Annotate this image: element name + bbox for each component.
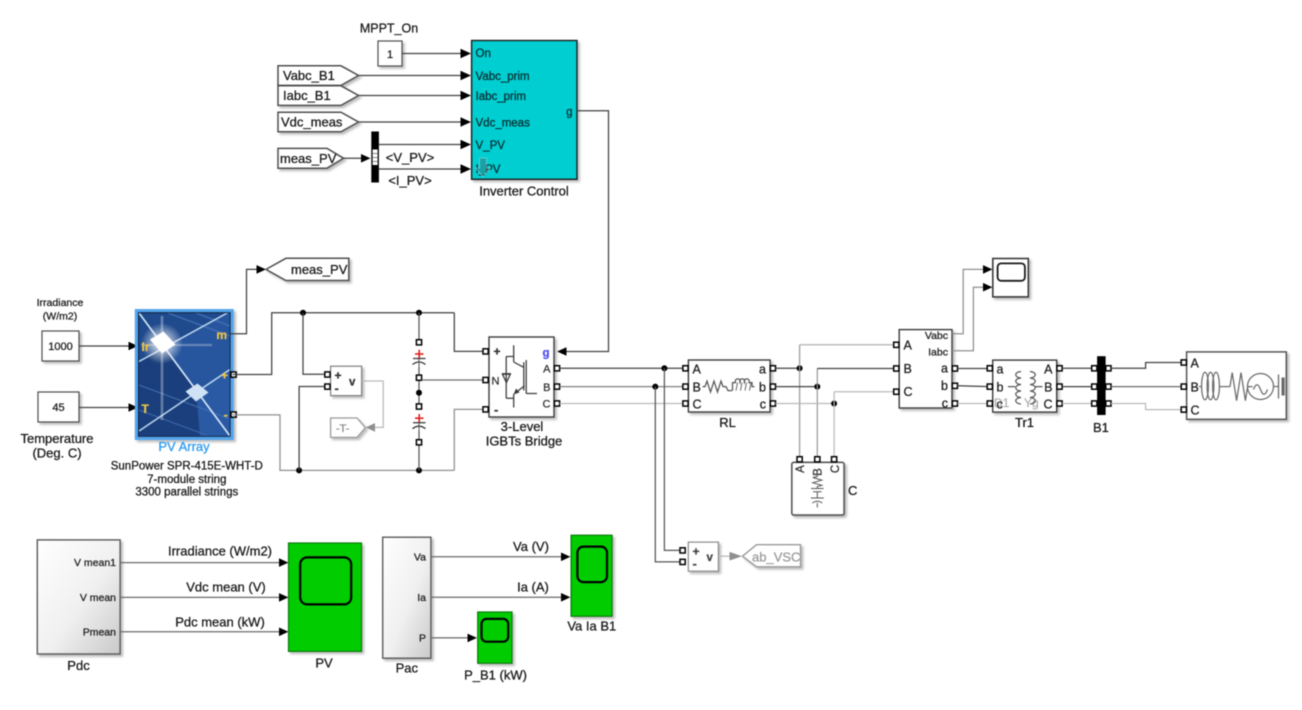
svg-text:T: T	[142, 402, 150, 416]
wire g output to bridge	[557, 111, 609, 356]
wire phase a riser	[799, 345, 801, 458]
label Inverter Control	[479, 184, 569, 199]
meter port squares	[894, 342, 958, 406]
svg-text:(Deg. C): (Deg. C)	[32, 446, 81, 461]
svg-text:P: P	[419, 633, 426, 645]
wire meas_PV to bus selector	[344, 154, 371, 163]
scope block	[993, 259, 1029, 297]
RL block	[688, 360, 770, 412]
svg-text:Vabc: Vabc	[925, 330, 948, 342]
wire m to meas_PV goto	[230, 265, 266, 334]
bridge port squares	[483, 349, 560, 412]
label RL	[719, 415, 736, 430]
svg-text:B: B	[1044, 381, 1052, 395]
transformer Tr1	[993, 360, 1057, 412]
subsystem Inverter Control	[472, 41, 577, 180]
label Va Ia B1	[567, 619, 616, 634]
label PV	[315, 656, 333, 671]
node phase a	[797, 365, 803, 371]
svg-text:a: a	[997, 363, 1004, 377]
wire 45 to T	[79, 403, 138, 412]
cursor artifact over I_PV	[476, 158, 491, 177]
svg-text:Iabc: Iabc	[928, 346, 948, 358]
svg-text:-: -	[335, 381, 339, 396]
wire Va to scope	[431, 553, 571, 562]
svg-text:A: A	[543, 364, 551, 376]
label Tr1	[1015, 415, 1034, 430]
scope P_B1	[478, 612, 512, 663]
svg-text:m: m	[216, 328, 227, 342]
svg-text:Ia: Ia	[417, 592, 426, 604]
svg-text:C: C	[1043, 398, 1052, 412]
bus bar B1	[1092, 356, 1111, 415]
svg-text:+: +	[221, 369, 228, 383]
label 3-Level IGBTs Bridge	[486, 419, 563, 449]
wire Vabc_B1 to Vabc_prim	[359, 71, 472, 81]
signal label Vdc mean (V)	[186, 580, 265, 595]
signal label Ia (A)	[517, 580, 549, 595]
svg-text:RL: RL	[719, 415, 736, 430]
wire RL c to node	[776, 403, 835, 405]
svg-text:(W/m2): (W/m2)	[43, 311, 77, 323]
svg-text:Temperature: Temperature	[21, 431, 94, 446]
wire Pmean to PV scope	[120, 628, 288, 637]
svg-text:v: v	[707, 552, 714, 564]
wire B1 to source B	[1111, 386, 1181, 388]
svg-text:A: A	[904, 338, 913, 352]
wire Iabc to scope	[952, 283, 992, 351]
goto tag -T-	[331, 418, 366, 437]
svg-text:Irradiance (W/m2): Irradiance (W/m2)	[168, 544, 272, 559]
wire 1000 to Ir	[79, 342, 138, 351]
signal label Pdc mean (kW)	[175, 615, 265, 630]
wire top bus to bridge plus	[454, 313, 483, 352]
wire bridge B to RL B	[560, 386, 683, 388]
label Irradiance (W/m2)	[37, 297, 84, 323]
svg-text:meas_PV: meas_PV	[291, 262, 348, 277]
svg-text:meas_PV: meas_PV	[280, 151, 337, 166]
goto tag ab_VSC	[743, 545, 801, 567]
3-Level IGBTs Bridge block	[489, 337, 554, 417]
label MPPT_On	[360, 22, 418, 36]
svg-text:g: g	[566, 107, 572, 119]
wire RL a to node	[776, 367, 800, 369]
capacitor C2	[413, 404, 426, 445]
node top bus right	[416, 310, 422, 316]
svg-text:Vdc_meas: Vdc_meas	[476, 118, 531, 130]
svg-text:3-Level: 3-Level	[501, 419, 544, 434]
svg-text:v: v	[349, 377, 356, 389]
svg-text:b: b	[941, 379, 948, 393]
svg-text:Va Ia B1: Va Ia B1	[567, 619, 616, 634]
svg-text:7-module string: 7-module string	[147, 474, 226, 486]
wire bridge C to RL C	[560, 403, 683, 405]
PV Array block	[135, 310, 236, 440]
wire A tap to Vab plus	[664, 368, 681, 550]
wire phase c riser	[833, 392, 835, 458]
capacitor bank C block	[792, 462, 844, 515]
subsystem Pac	[383, 537, 431, 658]
wire Iabc_B1 to Iabc_prim	[359, 91, 472, 101]
node bottom bus right	[416, 467, 422, 473]
svg-text:C: C	[693, 398, 702, 412]
wire PV plus to top bus	[233, 313, 455, 375]
svg-text:SunPower SPR-415E-WHT-D: SunPower SPR-415E-WHT-D	[111, 461, 263, 473]
svg-text:B: B	[904, 362, 912, 376]
svg-text:Vabc_prim: Vabc_prim	[476, 71, 530, 83]
wire RL b to node	[776, 386, 818, 388]
svg-text:<V_PV>: <V_PV>	[386, 150, 434, 165]
label Pac	[396, 661, 419, 676]
svg-text:A: A	[795, 465, 807, 473]
node top bus left	[300, 310, 306, 316]
svg-text:V mean1: V mean1	[74, 557, 116, 569]
wire constant to On	[402, 49, 471, 59]
wire v to ab_VSC tag	[718, 552, 742, 561]
wire phase b riser	[816, 369, 818, 459]
label B1	[1093, 420, 1109, 435]
svg-text:Pmean: Pmean	[83, 626, 116, 638]
label PV Array	[158, 439, 210, 454]
wire to meter B	[817, 368, 894, 370]
svg-text:Vdc mean (V): Vdc mean (V)	[186, 580, 265, 595]
wire Tr1 C to B1	[1062, 403, 1092, 405]
wire V mean1 to PV scope	[120, 558, 288, 567]
wire to meter C	[834, 391, 894, 393]
voltage measurement Vab_VSC	[680, 542, 718, 571]
node phase c	[831, 401, 837, 407]
svg-text:C: C	[1191, 404, 1200, 418]
svg-text:c: c	[760, 398, 766, 412]
svg-text:Vabc_B1: Vabc_B1	[283, 68, 335, 83]
wire I_PV	[379, 164, 471, 174]
constant block 1	[378, 41, 402, 66]
wire meter c to Tr1 c	[958, 403, 990, 405]
wire meter b to Tr1 b	[958, 385, 990, 388]
svg-text:Vdc_meas: Vdc_meas	[281, 115, 343, 130]
svg-text:Pdc mean (kW): Pdc mean (kW)	[175, 615, 265, 630]
svg-text:A: A	[1191, 357, 1200, 371]
svg-text:1: 1	[387, 49, 393, 61]
svg-text:a: a	[759, 363, 766, 377]
signal label Irradiance (W/m2)	[168, 544, 272, 559]
svg-text:-: -	[494, 402, 498, 417]
constant 45	[38, 392, 79, 422]
wire B tap to Vab minus	[655, 387, 681, 562]
wire B1 to source C	[1111, 404, 1181, 410]
wire cap midpoint to bridge N	[422, 379, 483, 381]
svg-text:B: B	[813, 468, 825, 476]
svg-text:B: B	[543, 382, 550, 394]
from tag Vabc_B1	[278, 66, 359, 86]
svg-text:PV: PV	[315, 656, 333, 671]
node phase b	[814, 384, 820, 390]
wire B1 to source A	[1111, 363, 1181, 369]
svg-text:Ia (A): Ia (A)	[517, 580, 549, 595]
wire bottom bus to bridge minus	[454, 409, 483, 470]
scope PV	[289, 543, 362, 651]
svg-text:c: c	[942, 397, 948, 411]
Tr1 port squares	[987, 366, 1062, 406]
svg-text:IGBTs Bridge: IGBTs Bridge	[486, 434, 563, 449]
svg-text:3300 parallel strings: 3300 parallel strings	[135, 487, 238, 499]
svg-text:Va: Va	[414, 551, 426, 563]
goto tag meas_PV	[266, 258, 349, 280]
svg-text:Iabc_B1: Iabc_B1	[283, 88, 331, 103]
svg-text:Irradiance: Irradiance	[37, 297, 84, 309]
label Temperature (Deg. C)	[21, 431, 94, 461]
signal label V_PV	[386, 150, 434, 165]
wire Tr1 A to B1	[1062, 367, 1092, 369]
wire to meter A	[800, 344, 894, 346]
from tag Iabc_B1	[278, 86, 359, 106]
voltage measurement Vdc	[325, 366, 362, 395]
wire Tr1 B to B1	[1062, 386, 1092, 388]
svg-text:Va (V): Va (V)	[513, 539, 549, 554]
label C	[848, 483, 857, 498]
svg-text:Tr1: Tr1	[1015, 415, 1034, 430]
signal label Va (V)	[513, 539, 549, 554]
svg-text:-T-: -T-	[336, 423, 350, 435]
subsystem Pdc	[37, 540, 120, 654]
svg-text:N: N	[492, 376, 500, 388]
svg-text:MPPT_On: MPPT_On	[360, 22, 418, 36]
three-phase VI measurement B1 meter	[899, 330, 952, 411]
svg-text:b: b	[759, 381, 766, 395]
svg-text:ab_VSC: ab_VSC	[752, 550, 800, 565]
wire Ia to scope	[431, 593, 571, 602]
label SunPower strings	[111, 461, 263, 499]
node bottom bus left	[296, 467, 302, 473]
svg-text:-: -	[224, 407, 228, 422]
svg-text:Ir: Ir	[142, 340, 150, 354]
svg-text:B1: B1	[1093, 420, 1109, 435]
svg-text:<I_PV>: <I_PV>	[388, 173, 431, 188]
RL port squares	[683, 366, 776, 406]
svg-text:C: C	[543, 399, 551, 411]
wire V mean to PV scope	[120, 593, 288, 602]
svg-text:c: c	[997, 398, 1003, 412]
svg-text:-: -	[693, 556, 697, 571]
wire Vabc to scope	[952, 265, 992, 334]
from tag Vdc_meas	[278, 112, 359, 132]
source port squares	[1181, 360, 1186, 412]
wire V_PV	[379, 140, 471, 150]
svg-text:PV Array: PV Array	[158, 439, 210, 454]
svg-text:On: On	[476, 48, 491, 60]
svg-text:Pac: Pac	[396, 661, 419, 676]
svg-text:C: C	[830, 465, 842, 473]
svg-text:C: C	[904, 385, 913, 399]
svg-text:A: A	[693, 363, 702, 377]
svg-text:V mean: V mean	[80, 592, 116, 604]
node A tap	[661, 365, 667, 371]
svg-text:B: B	[1191, 381, 1199, 395]
node capacitor midpoint	[416, 390, 422, 396]
node B tap	[652, 384, 658, 390]
constant 1000	[42, 331, 79, 361]
svg-text:P_B1 (kW): P_B1 (kW)	[464, 668, 527, 683]
signal label I_PV	[388, 173, 431, 188]
label P_B1 (kW)	[464, 668, 527, 683]
svg-text:b: b	[997, 381, 1004, 395]
wire top bus to Vdc plus	[303, 313, 324, 375]
wire capacitor leg	[418, 313, 420, 471]
wire v to -T- tag	[362, 381, 384, 432]
svg-text:45: 45	[52, 402, 64, 414]
svg-text:V_PV: V_PV	[476, 140, 506, 152]
svg-text:A: A	[1044, 363, 1053, 377]
wire PV minus to bottom bus	[233, 415, 455, 471]
grid source block	[1187, 352, 1287, 419]
from tag meas_PV	[278, 148, 344, 168]
svg-text:g: g	[542, 348, 549, 360]
C bank port squares	[797, 457, 837, 462]
svg-text:+: +	[494, 345, 501, 359]
wire Vdc minus to bottom bus	[299, 387, 324, 471]
scope Va Ia B1	[571, 535, 612, 616]
svg-text:Iabc_prim: Iabc_prim	[476, 91, 527, 103]
wire Vdc_meas to port	[359, 117, 472, 127]
wire bridge A to RL A	[560, 367, 683, 369]
svg-text:1000: 1000	[48, 341, 72, 353]
svg-text:Inverter Control: Inverter Control	[479, 184, 569, 199]
svg-text:a: a	[941, 362, 948, 376]
wire P to P_B1 scope	[431, 634, 477, 643]
bus selector	[371, 132, 379, 183]
svg-text:Pdc: Pdc	[67, 658, 90, 673]
capacitor C1	[413, 340, 426, 381]
svg-text:C: C	[848, 483, 857, 498]
svg-text:B: B	[693, 381, 701, 395]
label Pdc	[67, 658, 90, 673]
wire meter a to Tr1 a	[958, 368, 990, 370]
